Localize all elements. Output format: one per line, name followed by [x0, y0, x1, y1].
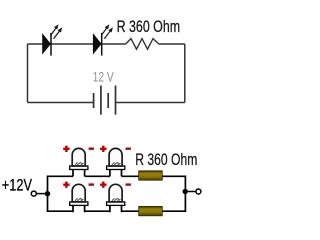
D5 plus polarity label: [63, 182, 69, 188]
schematic wire loop (top circuit): [28, 44, 185, 103]
D6 base flange: [107, 202, 125, 206]
wire junction to right terminal: [185, 191, 196, 193]
D6 chip detail: [112, 198, 121, 201]
D5 chip detail: [75, 198, 84, 201]
left supply terminal (open circle): [31, 191, 36, 196]
D1 cathode bar: [50, 33, 52, 56]
svg-text:R 360 Ohm: R 360 Ohm: [135, 150, 197, 169]
svg-text:12 V: 12 V: [93, 69, 115, 85]
junction node left: [45, 191, 50, 196]
D6 legs: [110, 205, 122, 212]
battery positive plate 1: [100, 86, 102, 115]
wire right side: [184, 44, 186, 103]
wire bottom branch: bus to LED5: [48, 210, 74, 212]
D4 plus polarity label: [100, 146, 106, 152]
wire top-right segment: [159, 43, 185, 45]
D4 legs: [110, 170, 122, 177]
wire right bus vertical: [184, 176, 186, 213]
D1 emission arrow 2: [54, 30, 61, 39]
wire left bus vertical: [47, 176, 49, 213]
D6 plus polarity label: [100, 182, 106, 188]
wire bottom-left segment: [28, 102, 94, 104]
wire bottom branch: LED5 to LED6: [85, 210, 110, 212]
D3 minus polarity label: [89, 147, 94, 149]
D5 minus polarity label: [89, 183, 94, 185]
wire top branch: LED4 to resistor: [122, 175, 140, 177]
wire bottom branch: LED6 to resistor: [122, 210, 140, 212]
wire top-left segment: [28, 43, 126, 45]
D6 minus polarity label: [126, 183, 131, 185]
LED D3 (pictorial lamp, top branch left): [63, 146, 94, 177]
D6 dome: [109, 184, 122, 202]
battery negative plate 1: [93, 93, 95, 108]
D3 legs: [73, 170, 85, 177]
LED D5 (pictorial lamp, bottom branch left): [63, 182, 94, 213]
battery BT1 12V: [94, 86, 116, 115]
LED D2 (schematic symbol): [93, 24, 113, 55]
D5 base flange: [70, 202, 88, 206]
D3 plus polarity label: [63, 146, 69, 152]
battery negative plate 2: [107, 93, 109, 108]
D5 legs: [73, 205, 85, 212]
wire top branch: bus to LED3: [48, 175, 74, 177]
D3 dome: [72, 148, 85, 166]
resistor R2 360 Ohm (pictorial body, top branch): [139, 171, 163, 180]
D1 anode triangle: [43, 34, 51, 53]
wire bottom branch: resistor to right bus: [162, 210, 186, 212]
wire left side: [27, 44, 29, 103]
wire left terminal to junction: [37, 193, 46, 195]
resistor R1 360 Ohm (schematic zigzag): [126, 39, 159, 50]
bottom branch wires: [48, 210, 186, 212]
D5 dome: [72, 184, 85, 202]
D2 anode triangle: [93, 34, 101, 53]
D4 minus polarity label: [126, 147, 131, 149]
D2 cathode bar: [101, 33, 103, 56]
wire bottom-right segment: [116, 102, 185, 104]
svg-text:+12V: +12V: [2, 176, 33, 195]
D3 chip detail: [75, 162, 84, 165]
resistor R3 360 Ohm (pictorial body, bottom branch): [139, 206, 163, 215]
LED D4 (pictorial lamp, top branch right): [100, 146, 131, 177]
junction node right: [183, 189, 188, 194]
D2 emission arrow 1: [101, 27, 107, 35]
top branch wires: [48, 175, 186, 177]
svg-text:R 360 Ohm: R 360 Ohm: [117, 17, 181, 36]
D1 emission arrow 1: [50, 27, 56, 35]
wire top branch: resistor to right bus: [162, 175, 186, 177]
wire top branch: LED3 to LED4: [85, 175, 110, 177]
D2 emission arrow 2: [104, 30, 111, 39]
right return terminal (open circle): [196, 189, 201, 194]
D3 base flange: [70, 166, 88, 170]
D4 base flange: [107, 166, 125, 170]
LED D1 (schematic symbol): [43, 24, 63, 55]
D4 dome: [109, 148, 122, 166]
battery positive plate 2: [115, 86, 117, 115]
LED D6 (pictorial lamp, bottom branch right): [100, 182, 131, 213]
D4 chip detail: [112, 162, 121, 165]
